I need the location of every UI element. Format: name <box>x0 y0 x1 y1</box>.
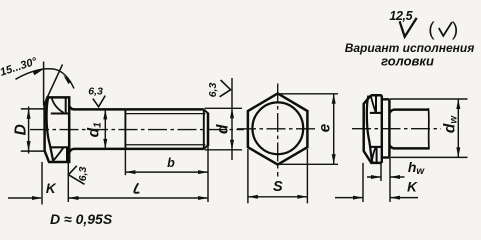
dimension dw extension bottom <box>391 156 468 158</box>
dimension S extension right <box>306 149 308 203</box>
svg-text:K: K <box>407 180 418 195</box>
dimension b extension line <box>124 149 126 175</box>
dimension S line <box>248 196 308 198</box>
roughness mark 6,3 on shank <box>93 96 105 107</box>
variant head facet curve lower cell <box>372 147 376 162</box>
bolt head facet curve upper cell <box>52 98 64 113</box>
svg-text:12,5: 12,5 <box>389 9 413 23</box>
dimension K right view line <box>335 197 418 199</box>
dimension l arrow left <box>69 196 79 200</box>
dimension D extension tick top <box>21 108 45 110</box>
bolt head facet edge upper <box>65 97 67 113</box>
dimension e extension bottom <box>279 163 338 165</box>
right view centerline <box>352 128 441 130</box>
dimension d extension bottom <box>205 149 243 151</box>
variant head hex outline <box>364 95 382 163</box>
roughness mark 6,3 under head <box>68 166 84 185</box>
variant head facet arc <box>367 96 372 163</box>
thread minor diameter bottom line <box>125 144 205 146</box>
roughness check mark large <box>400 18 417 37</box>
dimension dw line <box>457 99 459 157</box>
dimension hw extension right <box>389 158 391 203</box>
dimension hw extension left <box>380 163 382 181</box>
dimension hw line <box>367 176 405 178</box>
thread start line <box>124 109 126 148</box>
angle extension vertical line <box>43 62 45 106</box>
variant head left face extension line <box>362 163 364 202</box>
dimension b arrow right <box>198 170 208 174</box>
head left face extension line <box>41 162 43 205</box>
dimension K arrow (outside, pointing right) <box>32 196 42 200</box>
dimension D line <box>28 107 30 154</box>
dimension l arrow right <box>198 196 208 200</box>
variant head facet edge lower <box>376 147 378 163</box>
bolt head outline (side view) <box>45 97 70 162</box>
dimension S arrow right <box>297 195 307 199</box>
dimension D arrow up <box>27 109 31 119</box>
angle chamfer slant line <box>44 65 63 106</box>
angle arc <box>16 69 75 89</box>
roughness mark 6,3 at d line <box>220 80 231 97</box>
washer face right edge <box>388 99 391 157</box>
dimension b line <box>125 171 208 173</box>
svg-text:S: S <box>273 179 283 195</box>
variant head chamfer circle upper line <box>370 112 382 114</box>
svg-text:e: e <box>317 123 334 132</box>
bolt head chamfer circle upper line <box>51 112 69 114</box>
bolt head facet curve lower cell <box>53 148 64 162</box>
bolt head chamfer circle lower line <box>50 146 69 148</box>
variant shank break edge <box>427 108 430 149</box>
hex view horizontal centerline <box>237 128 319 130</box>
bolt end extension line <box>207 146 209 202</box>
dimension hw arrow right outside <box>390 175 400 179</box>
bolt head facet edge lower <box>66 147 68 162</box>
dimension dw arrow down <box>456 147 460 157</box>
dimension e arrow up <box>332 94 336 104</box>
dimension S arrow left <box>248 195 258 199</box>
thread end chamfer top slant <box>204 109 208 113</box>
svg-text:6,3: 6,3 <box>207 83 219 98</box>
svg-text:d: d <box>215 124 232 134</box>
svg-text:головки: головки <box>381 53 434 68</box>
thread end chamfer bottom slant <box>204 145 208 149</box>
bolt end face <box>207 113 210 147</box>
left view centerline <box>30 129 244 131</box>
dimension d arrow down <box>230 140 234 150</box>
dimension b arrow left <box>125 170 135 174</box>
label l <box>134 184 138 193</box>
dimension D arrow down <box>27 141 31 151</box>
dimension dw arrow up <box>456 99 460 109</box>
angle arc arrow at slant line <box>63 75 71 84</box>
thread outer bottom line <box>125 148 203 151</box>
washer face top edge <box>382 98 390 100</box>
svg-text:): ) <box>452 20 458 41</box>
variant shank bottom line <box>390 145 429 148</box>
washer face bottom edge <box>382 156 390 158</box>
dimension K right arrow left outside <box>353 196 363 200</box>
head chamfer circle <box>252 102 303 154</box>
thread end chamfer line <box>203 109 205 148</box>
dimension e line <box>333 94 335 165</box>
shank bottom line with fillet <box>69 149 125 153</box>
dimension d1 arrow up <box>103 109 107 119</box>
dimension dw extension top <box>390 98 468 100</box>
bolt head facet arc <box>47 98 54 162</box>
dimension d line <box>231 78 233 160</box>
dimension K right arrow right outside <box>390 196 400 200</box>
variant shank top line <box>390 110 429 114</box>
hex view vertical centerline <box>277 84 279 177</box>
dimension l and K line <box>8 197 208 199</box>
svg-text:K: K <box>46 181 57 196</box>
dimension e arrow down <box>332 154 336 164</box>
head right face extension line <box>67 162 69 202</box>
hexagon head front view <box>248 93 308 164</box>
angle arc arrow at vertical line <box>33 70 43 76</box>
dimension d1 arrow down <box>103 139 107 149</box>
svg-text:D ≈ 0,95S: D ≈ 0,95S <box>50 211 113 227</box>
variant head facet curve upper cell <box>371 96 376 113</box>
svg-text:b: b <box>167 156 175 170</box>
svg-text:6,3: 6,3 <box>88 85 103 97</box>
dimension d1 line <box>104 109 106 148</box>
variant head right boundary line <box>381 95 383 163</box>
dimension D extension tick bottom <box>21 150 45 152</box>
dimension d arrow up <box>230 108 234 118</box>
roughness check mark small <box>439 22 452 36</box>
svg-text:(: ( <box>428 20 435 41</box>
dimension S extension left <box>247 149 249 203</box>
variant head chamfer circle lower line <box>370 146 382 148</box>
dimension e extension top <box>279 93 338 95</box>
svg-text:6,3: 6,3 <box>77 167 89 182</box>
dimension d extension top <box>205 107 243 109</box>
dimension hw arrow left outside <box>371 175 381 179</box>
shank top line with fillet <box>69 106 125 110</box>
thread minor diameter top line <box>125 113 205 115</box>
thread outer top line <box>125 108 203 111</box>
svg-text:D: D <box>12 124 29 135</box>
variant head facet edge upper <box>375 95 377 113</box>
